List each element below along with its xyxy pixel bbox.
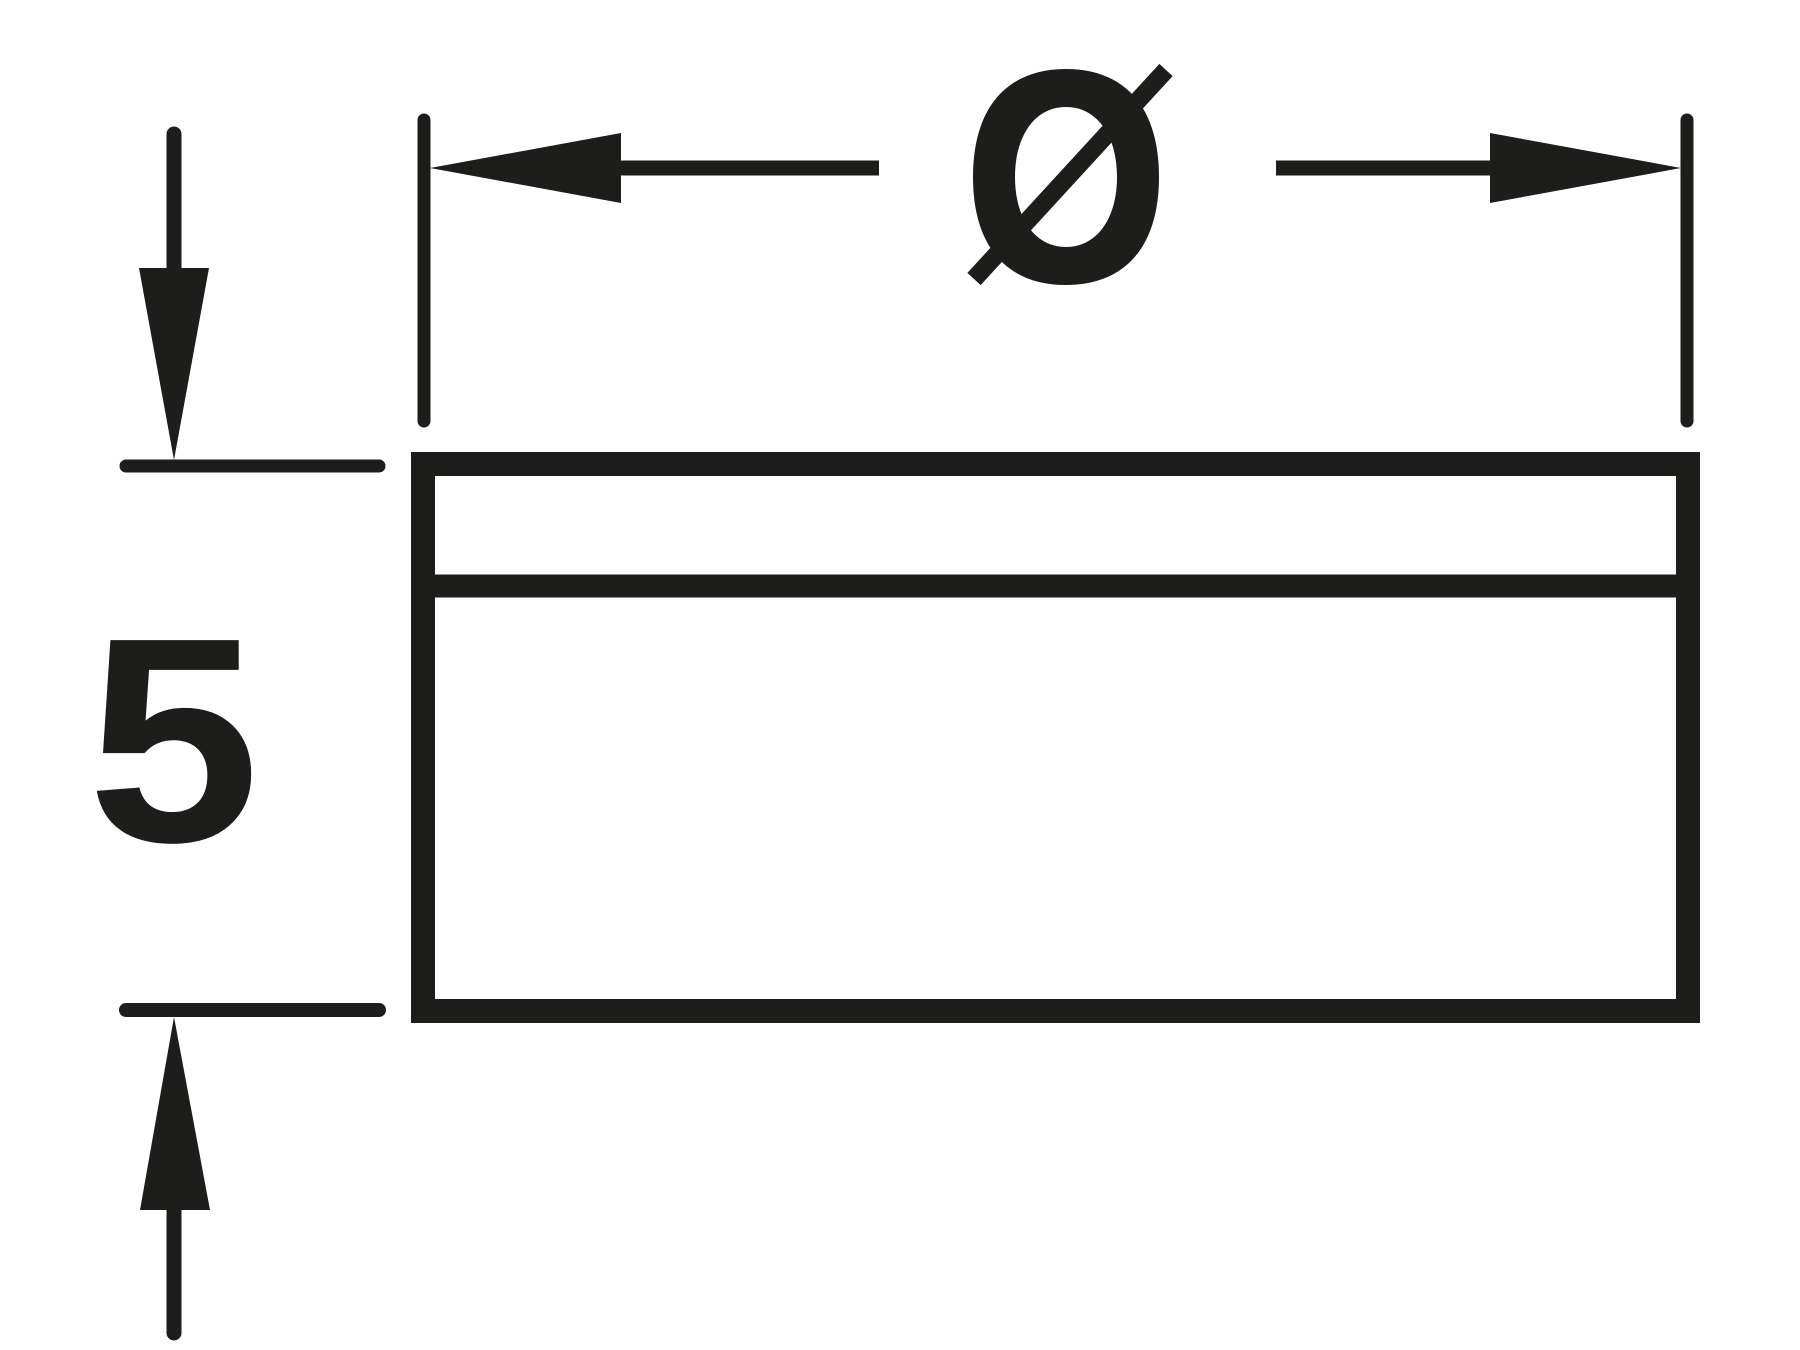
part outline: cover cap side view rectangle (423, 464, 1688, 1011)
diameter symbol: slash (974, 70, 1166, 279)
diameter symbol: O ring (973, 69, 1159, 285)
left arrowhead of diameter dimension (430, 133, 621, 203)
top tick of height dimension (126, 460, 379, 473)
bottom arrowhead pointing up (140, 1017, 210, 1210)
right arrowhead of diameter dimension (1490, 133, 1681, 203)
top arrowhead pointing down (139, 268, 209, 460)
left extension line of diameter dimension (418, 120, 431, 421)
height value label 5 (87, 576, 260, 903)
svg-text:5: 5 (87, 576, 260, 903)
top arrow shaft of height dimension (167, 134, 182, 269)
bottom tick of height dimension (126, 1003, 379, 1017)
bottom arrow shaft of height dimension (167, 1210, 182, 1333)
left shaft of diameter dimension (621, 161, 879, 176)
lip line inside cap (411, 575, 1700, 598)
right extension line of diameter dimension (1681, 120, 1694, 421)
right shaft of diameter dimension (1276, 161, 1490, 176)
